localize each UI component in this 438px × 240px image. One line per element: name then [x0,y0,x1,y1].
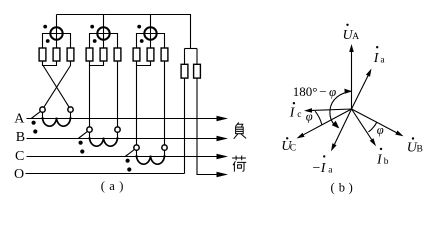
wire element3 U-link down to CT-C left terminal [136,66,138,146]
wire element2 rect3 down to CT-B right terminal [117,61,119,127]
svg-text:I: I [373,51,380,66]
coil rectangle 2.1 [86,48,93,61]
meter element 3 circle (crossed-circle symbol) [144,27,156,39]
wire top bus from element 1 to right drop [57,15,191,49]
CT-C polarity dot 1 [126,159,130,163]
polarity dot upper-left of element 2 [90,25,94,29]
coil rectangle 3.2 [147,48,154,61]
wire U-link below rect 2.1 and 2.2 [90,61,104,66]
label U_C [281,137,296,154]
CT-B lead-in diagonal from line B [78,132,87,139]
resistor rectangle R1 [181,64,188,78]
svg-text:a: a [380,55,385,65]
svg-text:C: C [15,149,24,164]
svg-text:I: I [289,106,296,121]
CT-A left terminal stub [42,112,44,118]
label I_a [373,46,386,66]
svg-text:C: C [290,144,296,154]
svg-text:b: b [384,157,389,167]
svg-text:O: O [14,167,24,182]
meter element 2 circle (crossed-circle symbol) [97,27,109,39]
CT-C left terminal circle [134,145,139,150]
svg-text:c: c [297,110,301,120]
CT-C right terminal stub [164,150,166,156]
svg-text:φ: φ [306,109,313,123]
vector I_a line [352,76,369,109]
CT-B primary winding bumps [89,137,117,146]
line A (phase A conductor) [27,118,220,120]
crossed wire from element1 rect3 to CT-A left terminal [43,61,70,108]
wire element2 U-link down to CT-B left terminal [89,66,91,128]
wire header to resistor R1 top [184,49,186,65]
vector minus I_a line [335,109,352,144]
arc phi left (I_c to U_C) [315,111,322,124]
vector U_C line [304,109,352,135]
label I_c [289,102,302,121]
meter element 3 vertical wire (bus to center coil) [150,15,152,49]
label 负 (load) [234,123,246,139]
line B (phase B conductor) [27,138,220,140]
arrowhead output neutral [217,172,229,178]
CT-B left terminal circle [87,127,92,132]
CT-C right terminal circle [162,145,167,150]
wire element3 rect3 down to CT-C right terminal [164,61,166,145]
svg-text:(b): (b) [331,181,353,195]
svg-text:I: I [320,161,327,176]
svg-text:180°−φ: 180°−φ [293,84,337,99]
arc 180deg-phi [330,91,352,127]
CT-B right terminal circle [115,127,120,132]
CT-A primary winding bumps [42,117,70,126]
svg-text:(a): (a) [101,179,124,193]
wire header to resistor R2 top [196,49,198,65]
label I_b [376,148,389,168]
CT-B right terminal stub [117,132,119,138]
arc 180deg-phi bottom arrowhead [332,121,340,129]
CT-B left terminal stub [89,132,91,138]
crossed wire from element1 U-link to CT-A right terminal [43,66,70,108]
resistor rectangle R2 [194,64,201,78]
CT-C left terminal stub [136,150,138,156]
svg-text:B: B [16,130,25,145]
svg-text:A: A [352,32,359,42]
CT-A lead-in diagonal from line A [31,112,40,119]
wire resistor R1 down to line O corner [184,78,186,173]
arrowhead line B [217,136,229,142]
polarity dot lower-left of element 2 [93,39,97,43]
arc phi right (I_b to U_B) [369,122,377,132]
CT-A polarity dot 2 [33,129,37,133]
meter element 1 circle (crossed-circle symbol) [50,27,62,39]
wire U-link below rect 3.1 and 3.2 [137,61,151,66]
svg-text:A: A [14,111,25,126]
vector U_A line [351,52,353,109]
meter element 1 horizontal wire with side drops [43,34,71,49]
wire resistor R2 down and right to output arrow [197,78,219,174]
CT-C lead-in diagonal from line C [125,150,134,157]
vector U_B line [352,109,397,133]
vector U_B arrowhead [395,131,403,137]
arrowhead line A [217,116,229,122]
coil rectangle 2.3 [114,48,121,61]
svg-text:φ: φ [377,123,384,137]
meter element 3 horizontal wire with side drops [137,34,165,49]
CT-C primary winding bumps [136,155,164,164]
vector minus I_a arrowhead [331,143,337,151]
line C (phase C conductor) [27,156,220,158]
CT-B polarity dot 1 [79,141,83,145]
svg-text:B: B [417,145,423,155]
wire U-link below rect 1.1 and 1.2 [43,61,57,66]
CT-B polarity dot 2 [80,149,84,153]
vector U_C arrowhead [297,133,305,139]
polarity dot lower-left of element 3 [140,39,144,43]
CT-A right terminal stub [70,112,72,118]
polarity dot upper-left of element 1 [43,25,47,29]
meter element 2 horizontal wire with side drops [90,34,118,49]
coil rectangle 3.3 [161,48,168,61]
vector I_b arrowhead [370,138,376,146]
meter element 1 vertical wire (bus to center coil) [56,15,58,49]
coil rectangle 3.1 [133,48,140,61]
label 荷 (load 2nd char) [232,156,246,172]
vector I_a arrowhead [366,69,372,77]
svg-text:a: a [328,166,333,176]
coil rectangle 1.1 [39,48,46,61]
label U_A [343,24,360,43]
arrowhead line C [217,154,229,160]
CT-A right terminal circle [68,107,73,112]
coil rectangle 1.3 [67,48,74,61]
CT-A polarity dot 1 [31,121,35,125]
wire drop from bus split to resistor pair header [185,48,198,50]
label U_B [407,137,423,155]
polarity dot lower-left of element 1 [46,39,50,43]
vector U_A arrowhead [349,44,354,52]
vector I_c line [312,109,352,110]
vector I_b line [352,109,372,140]
coil rectangle 1.2 [53,48,60,61]
coil rectangle 2.2 [100,48,107,61]
CT-A left terminal circle [40,107,45,112]
label minus I_a [313,155,334,176]
polarity dot upper-left of element 3 [137,25,141,29]
svg-text:−: − [313,161,321,176]
CT-C polarity dot 2 [127,167,131,171]
vector I_c arrowhead [304,108,312,113]
line O (neutral conductor) up to resistor R1 [26,173,185,175]
svg-text:I: I [376,153,383,168]
arc 180deg-phi top arrowhead [344,89,352,94]
meter element 2 vertical wire (bus to center coil) [103,15,105,49]
